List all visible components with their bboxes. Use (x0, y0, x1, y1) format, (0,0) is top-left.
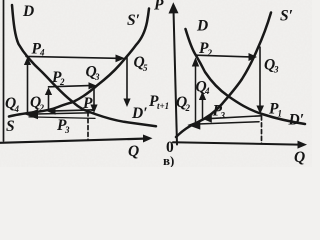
cobweb: long vertical up arrow x=195.5 (195, 64, 197, 124)
svg-text:5: 5 (143, 63, 148, 73)
dashed vertical below P1 (261, 116, 263, 144)
svg-text:2: 2 (59, 77, 65, 87)
svg-text:4: 4 (39, 48, 45, 58)
svg-text:Q: Q (128, 143, 139, 160)
left P-axis (3, 0, 5, 141)
cobweb: big left arrow (lower) (198, 122, 259, 124)
cobweb: vertical x=260 down arrow (259, 47, 261, 107)
cobweb: P4 level line (26, 56, 117, 58)
cobweb: inner vertical x=49 up arrow (48, 92, 50, 111)
cobweb: short vertical up arrow x=202.5 (Q4) (202, 98, 204, 119)
cobweb: inner vertical x=93.5 down arrow (93, 88, 95, 106)
svg-text:в): в) (163, 153, 174, 167)
Q-axis (173, 142, 298, 144)
svg-text:D′: D′ (288, 112, 305, 129)
supply curve S-S' (9, 9, 149, 117)
dashed vertical at Q* (87, 112, 89, 140)
svg-text:2: 2 (185, 103, 191, 113)
svg-text:2: 2 (207, 48, 213, 58)
supply curve S' (right) (176, 13, 271, 138)
svg-text:D: D (22, 3, 34, 20)
demand curve D-D' (12, 5, 156, 126)
svg-text:2: 2 (39, 103, 45, 113)
axis arrowhead (143, 135, 153, 143)
svg-text:1: 1 (91, 103, 96, 113)
svg-text:3: 3 (220, 111, 226, 121)
cobweb: P1 level left arrow (210, 116, 261, 119)
svg-text:3: 3 (273, 65, 279, 75)
cobweb: vertical x=27.5 with up arrow (27, 62, 29, 113)
cobweb: inner left arrow line (55, 110, 94, 111)
svg-text:4: 4 (204, 86, 210, 96)
svg-text:3: 3 (94, 72, 100, 82)
svg-text:S′: S′ (127, 12, 140, 29)
bottom Q-axis (0, 139, 144, 143)
cobweb: P2 level line right arrow (196, 55, 250, 57)
demand curve D-D' (right) (186, 29, 306, 124)
right arrowhead on P4 line (116, 55, 126, 63)
paper background (0, 0, 312, 167)
cobweb: vertical x=127 down arrow (126, 58, 128, 100)
P-axis (174, 10, 178, 145)
svg-text:1: 1 (278, 109, 283, 119)
svg-text:P: P (154, 0, 164, 14)
cobweb: big left arrow line (36, 113, 93, 114)
svg-text:D: D (196, 18, 208, 35)
P3 level line (29, 117, 95, 119)
svg-text:3: 3 (64, 125, 70, 135)
svg-text:S′: S′ (280, 8, 293, 25)
svg-text:D′: D′ (131, 105, 148, 122)
cobweb: P2 level line with right arrow (49, 86, 90, 87)
svg-text:Q: Q (294, 149, 305, 166)
svg-text:S: S (6, 118, 15, 135)
svg-text:4: 4 (14, 104, 20, 114)
svg-text:t+1: t+1 (157, 101, 169, 111)
